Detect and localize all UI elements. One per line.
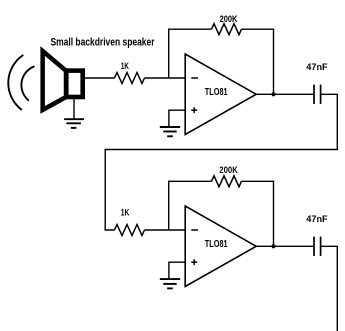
resistor R2 200K (stage 1) bbox=[212, 24, 242, 35]
wire: R3 to op-amp U2 inverting input bbox=[145, 229, 186, 231]
wire: speaker to R1 bbox=[85, 77, 115, 79]
pin marker: non-inverting input plus (U2) bbox=[191, 259, 197, 265]
wire: U2 plus input to ground bbox=[169, 262, 185, 279]
ground (U2 plus input) bbox=[160, 279, 180, 288]
svg-text:200K: 200K bbox=[220, 14, 238, 25]
wire: R1 to op-amp U1 inverting input bbox=[145, 77, 186, 79]
wire: feedback left vertical (stage 1) bbox=[168, 29, 170, 79]
svg-text:Small backdriven speaker: Small backdriven speaker bbox=[51, 37, 156, 49]
pin marker: inverting input minus (U1) bbox=[191, 77, 198, 79]
wire: feedback top right segment (stage 2) bbox=[242, 180, 274, 182]
wire: U1 plus input to ground bbox=[169, 110, 185, 127]
wire: C1 to right then down and across to stage 2 bbox=[105, 94, 337, 230]
speaker LS1 bbox=[43, 51, 83, 110]
svg-text:47nF: 47nF bbox=[306, 214, 327, 225]
wire: feedback top right segment (stage 1) bbox=[242, 28, 274, 30]
pin marker: inverting input minus (U2) bbox=[191, 229, 198, 231]
pin marker: non-inverting input plus (U1) bbox=[191, 107, 197, 113]
resistor R3 1K (stage 2) bbox=[115, 225, 145, 236]
op-amp U1 TLO81 bbox=[185, 54, 256, 135]
ground (U1 plus input) bbox=[160, 127, 180, 136]
capacitor C2 47nF bbox=[314, 237, 321, 256]
speaker sound waves bbox=[8, 55, 33, 109]
wire: feedback right vertical (stage 1) bbox=[273, 29, 275, 95]
wire: U2 output to capacitor C2 bbox=[256, 245, 314, 247]
op-amp U2 TLO81 bbox=[185, 206, 256, 287]
ground (speaker) bbox=[64, 119, 84, 128]
wire: feedback right vertical (stage 2) bbox=[273, 181, 275, 247]
svg-text:TLO81: TLO81 bbox=[205, 239, 228, 250]
svg-text:1K: 1K bbox=[121, 61, 129, 72]
resistor R1 1K (stage 1) bbox=[115, 73, 145, 84]
wire: feedback top left segment (stage 2) bbox=[168, 180, 212, 182]
node: output junction (stage 2) bbox=[271, 244, 275, 248]
svg-text:TLO81: TLO81 bbox=[205, 87, 228, 98]
wire: feedback top left segment (stage 1) bbox=[168, 28, 212, 30]
capacitor C1 47nF bbox=[314, 85, 321, 104]
svg-text:47nF: 47nF bbox=[306, 62, 327, 73]
wire: feedback left vertical (stage 2) bbox=[168, 181, 170, 230]
resistor R4 200K (stage 2) bbox=[212, 176, 242, 187]
node: output junction (stage 1) bbox=[271, 92, 275, 96]
svg-text:200K: 200K bbox=[219, 165, 238, 176]
wire: C2 output to bottom edge bbox=[321, 246, 338, 331]
wire: speaker to ground bbox=[73, 99, 75, 119]
wire: U1 output to capacitor C1 bbox=[256, 93, 314, 95]
svg-text:1K: 1K bbox=[121, 207, 130, 218]
